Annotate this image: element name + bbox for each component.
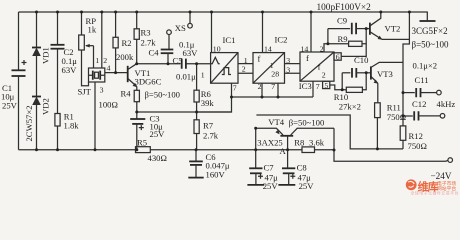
- svg-text:C5: C5: [173, 56, 183, 66]
- svg-text:VD2: VD2: [41, 98, 51, 115]
- capacitor C7: [247, 150, 278, 191]
- capacitor C1: [1, 60, 27, 111]
- zener diode VD1: [32, 12, 51, 64]
- svg-text:63V: 63V: [62, 65, 78, 75]
- transistor VT1: [128, 64, 162, 87]
- wire (IC3 pin7): [312, 81, 314, 97]
- wire: [57, 49, 59, 114]
- svg-text:β=50~100: β=50~100: [412, 39, 450, 49]
- transistor VT3: [371, 66, 393, 83]
- wire left rail lower: [18, 76, 20, 150]
- svg-text:25V: 25V: [150, 129, 166, 139]
- svg-text:电子市场: 电子市场: [437, 180, 456, 187]
- svg-text:5: 5: [324, 81, 328, 90]
- svg-text:全球电子元器件交易平台: 全球电子元器件交易平台: [411, 190, 459, 195]
- wire (pin2 to rail): [101, 12, 103, 68]
- svg-text:10: 10: [213, 45, 221, 54]
- wire: [82, 50, 89, 86]
- svg-text:f: f: [318, 61, 321, 71]
- wire (IC1 to IC2): [238, 56, 253, 74]
- svg-text:63V: 63V: [183, 48, 199, 58]
- svg-text:28: 28: [271, 70, 279, 79]
- resistor R12: [400, 116, 427, 151]
- svg-text:f: f: [306, 53, 309, 63]
- svg-text:25V: 25V: [263, 181, 279, 191]
- capacitor C11: [403, 75, 441, 97]
- svg-text:3: 3: [100, 86, 104, 95]
- capacitor C12: [403, 99, 455, 121]
- svg-text:3CG5F×2: 3CG5F×2: [412, 26, 448, 36]
- svg-text:C4: C4: [149, 48, 160, 58]
- svg-text:2: 2: [322, 70, 326, 79]
- wire: [136, 102, 138, 119]
- capacitor C4: [149, 35, 199, 64]
- svg-text:2.7k: 2.7k: [203, 130, 219, 140]
- svg-text:−24V: −24V: [431, 171, 452, 181]
- resistor R2: [113, 12, 134, 73]
- wire: [36, 105, 38, 150]
- svg-text:R11: R11: [387, 102, 401, 112]
- IC U2 (IC2): [253, 34, 287, 91]
- svg-text:C10: C10: [354, 55, 368, 65]
- svg-text:R3: R3: [141, 27, 151, 37]
- svg-text:IC2: IC2: [275, 34, 288, 44]
- svg-text:7: 7: [233, 83, 237, 92]
- svg-text:1: 1: [95, 56, 99, 65]
- svg-text:XS: XS: [175, 23, 186, 33]
- svg-text:C11: C11: [415, 75, 429, 85]
- transistor VT4: [256, 117, 334, 148]
- svg-text:0.01μ: 0.01μ: [176, 72, 196, 82]
- wire top rail: [19, 11, 428, 13]
- svg-text:1: 1: [270, 61, 274, 70]
- wire bottom rail: [19, 149, 335, 151]
- wire (VT3 emitter): [377, 83, 379, 103]
- wire left rail upper: [18, 12, 20, 70]
- svg-text:7: 7: [271, 82, 275, 91]
- svg-text:4: 4: [107, 64, 111, 73]
- wire (IC1 pin7 down to bus and step): [197, 83, 232, 112]
- resistor R1: [55, 112, 79, 131]
- svg-text:VT3: VT3: [377, 69, 393, 79]
- svg-text:2: 2: [242, 65, 246, 74]
- wire: [36, 56, 38, 97]
- wire (pin4 base wire): [105, 72, 128, 74]
- svg-text:VD1: VD1: [41, 47, 51, 64]
- capacitor C2: [51, 12, 78, 75]
- junction dots top rail: [35, 11, 411, 14]
- svg-text:f: f: [258, 53, 261, 63]
- capacitor C3: [130, 114, 165, 140]
- wire (VT4 emitter net to R11/R12 bottom): [256, 115, 403, 149]
- wire (IC2 bottom pins): [262, 83, 278, 97]
- capacitor C10: [342, 55, 371, 78]
- svg-text:SJT: SJT: [78, 87, 92, 97]
- transistor VT2: [366, 12, 400, 40]
- wire (VT2 emitter to right column): [382, 38, 410, 40]
- resistor R6: [194, 64, 214, 112]
- svg-text:14: 14: [264, 45, 272, 54]
- svg-text:25V: 25V: [299, 181, 315, 191]
- svg-text:β=50~100: β=50~100: [289, 117, 324, 127]
- svg-text:2.7k: 2.7k: [141, 37, 157, 47]
- svg-text:3.6k: 3.6k: [309, 138, 325, 148]
- svg-text:14: 14: [301, 45, 309, 54]
- wire (bus IC pins 7): [232, 96, 314, 98]
- svg-text:C9: C9: [337, 16, 347, 26]
- wire (emitter tap to divider): [137, 111, 232, 113]
- svg-text:430Ω: 430Ω: [148, 153, 167, 163]
- zener diode VD2: [24, 97, 51, 142]
- svg-text:IC1: IC1: [223, 35, 236, 45]
- svg-text:R5: R5: [137, 138, 147, 148]
- svg-text:2: 2: [320, 44, 324, 53]
- svg-text:R2: R2: [122, 38, 132, 48]
- svg-text:100pF100V×2: 100pF100V×2: [317, 3, 372, 13]
- resistor R4: [99, 89, 140, 110]
- junction dots bottom rail: [35, 148, 336, 151]
- svg-text:IC3: IC3: [299, 81, 312, 91]
- svg-text:0.1μ×2: 0.1μ×2: [413, 61, 438, 71]
- wire: [136, 124, 138, 150]
- svg-text:3: 3: [286, 56, 290, 65]
- capacitor C9: [328, 16, 366, 35]
- wire (IC2 to IC3): [285, 56, 301, 75]
- ground (top right): [420, 12, 436, 21]
- potentiometer RP: [79, 12, 97, 50]
- resistor R9: [328, 29, 366, 47]
- wire (VT3 collector link): [371, 62, 403, 67]
- terminal -24V: [431, 158, 453, 181]
- wire (VT4 base to node A): [287, 137, 289, 150]
- svg-text:1: 1: [201, 71, 205, 80]
- svg-text:C12: C12: [412, 99, 426, 109]
- capacitor C5: [173, 56, 197, 82]
- resistor R10: [334, 73, 366, 112]
- svg-text:A: A: [280, 146, 287, 156]
- capacitor C8: [278, 150, 314, 191]
- wire (to -24V rail): [334, 128, 448, 161]
- svg-text:160V: 160V: [206, 169, 226, 179]
- svg-text:7: 7: [316, 82, 320, 91]
- wire (VT4 emitter branch down): [255, 128, 257, 149]
- resistor R7: [194, 112, 219, 150]
- svg-text:27k×2: 27k×2: [339, 102, 361, 112]
- IC U1 (IC1): [211, 35, 238, 93]
- svg-text:β=50~100: β=50~100: [145, 90, 180, 100]
- pin 6 (boxed): [334, 44, 366, 62]
- connector XS: [167, 12, 193, 35]
- wire (collector to IC1 pin1): [137, 63, 211, 65]
- svg-text:R8: R8: [294, 138, 304, 148]
- crystal unit SJT: [78, 56, 111, 97]
- wire (IC1 pin10): [211, 12, 213, 53]
- svg-text:1k: 1k: [88, 25, 97, 35]
- wire (pin3 to bottom rail): [94, 82, 96, 150]
- svg-text:C8: C8: [297, 163, 307, 173]
- resistor R3: [134, 12, 156, 64]
- resistor R11: [375, 102, 407, 149]
- watermark logo: [406, 179, 459, 195]
- svg-text:200k: 200k: [116, 52, 134, 62]
- wire (IC3 pin2 to RC): [324, 44, 328, 52]
- wire (IC3 pin14): [310, 12, 312, 52]
- svg-text:6: 6: [336, 52, 340, 61]
- svg-text:4kHz: 4kHz: [437, 99, 456, 109]
- svg-text:C7: C7: [264, 163, 275, 173]
- svg-text:25V: 25V: [2, 101, 18, 111]
- svg-text:3: 3: [286, 65, 290, 74]
- svg-text:R12: R12: [409, 131, 423, 141]
- svg-text:R7: R7: [203, 120, 214, 130]
- svg-text:1: 1: [244, 56, 248, 65]
- pin 5 (boxed): [323, 81, 343, 90]
- wire (right column with jog): [403, 12, 409, 116]
- svg-text:R10: R10: [334, 92, 348, 102]
- svg-text:39k: 39k: [201, 98, 215, 108]
- junction dots mid: [114, 27, 404, 150]
- svg-text:1.8k: 1.8k: [64, 121, 80, 131]
- svg-text:R4: R4: [121, 89, 132, 99]
- IC U3 (IC3): [299, 44, 334, 91]
- wire (wiper to pin1): [93, 46, 95, 68]
- svg-text:750Ω: 750Ω: [408, 141, 427, 151]
- resistor R5: [136, 138, 167, 163]
- svg-text:2CW57×2: 2CW57×2: [24, 105, 34, 141]
- wire (emitter): [136, 87, 138, 91]
- capacitor C6: [188, 150, 230, 180]
- svg-text:VT4: VT4: [268, 117, 284, 127]
- svg-text:3DG6C: 3DG6C: [135, 76, 162, 86]
- svg-text:R9: R9: [338, 34, 348, 44]
- resistor R8: [294, 138, 324, 153]
- wire: [57, 126, 59, 150]
- wire (IC2 pin14): [262, 12, 264, 53]
- svg-text:100Ω: 100Ω: [99, 100, 118, 110]
- svg-text:VT2: VT2: [385, 23, 401, 33]
- svg-text:2: 2: [258, 82, 262, 91]
